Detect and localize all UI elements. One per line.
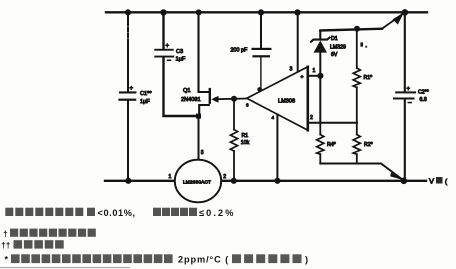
svg-text:LM2930ACT: LM2930ACT	[183, 179, 211, 184]
svg-text:1μF: 1μF	[176, 57, 186, 63]
svg-text:†: †	[3, 228, 8, 238]
svg-text:R1: R1	[242, 133, 249, 139]
wire C2 top lead	[404, 13, 406, 92]
svg-text:+: +	[301, 74, 304, 80]
note line 3: ++ 固体钽电容	[1, 240, 64, 250]
scan noise line bottom left	[0, 267, 130, 269]
wire C3 top lead	[162, 13, 164, 49]
svg-text:C1**: C1**	[140, 91, 152, 97]
arrowhead blob on diagonal	[390, 172, 402, 179]
svg-text:C3: C3	[176, 49, 183, 55]
resistor R5	[353, 42, 372, 87]
svg-text:≤0.2%: ≤0.2%	[199, 208, 235, 218]
wire Q1 gate to op-amp output	[217, 98, 247, 101]
svg-text:6V: 6V	[331, 52, 338, 58]
node junction top rail C5	[258, 9, 264, 15]
svg-text:4: 4	[272, 115, 275, 120]
node junction emitter/C3	[196, 114, 201, 119]
wire R1 top lead	[233, 99, 235, 130]
wire R5 bottom lead	[356, 87, 358, 122]
wire zener cathode to top right	[320, 29, 382, 31]
svg-text:R4*: R4*	[327, 142, 336, 148]
wire op-amp V+ lead	[297, 13, 299, 72]
capacitor C3 1uF	[154, 44, 186, 63]
node junction top rail V+ pin	[294, 9, 300, 15]
svg-text:1μF: 1μF	[140, 99, 150, 105]
node junction top rail C1	[125, 9, 131, 15]
wire zener anode down through pin1 node to R4	[319, 53, 321, 123]
svg-text:3: 3	[201, 150, 204, 156]
wire R1 bottom lead	[233, 151, 235, 180]
wire C1 top lead	[127, 13, 129, 23]
node junction comp pin on op-amp edge	[257, 87, 262, 92]
wire reference top pin	[198, 118, 200, 160]
note line 4: * 选择电阻使输出电压温度系数等于2ppm/C (按图所指出的)	[5, 254, 309, 264]
svg-text:1: 1	[169, 174, 172, 180]
node Vout label	[429, 177, 447, 186]
node junction bottom rail right	[401, 178, 408, 185]
node junction bottom rail R1	[231, 178, 237, 184]
wire R5 top lead	[356, 29, 358, 68]
svg-text:Q1: Q1	[183, 88, 190, 94]
wire bottom output rail right segment	[221, 180, 426, 182]
svg-text:(: (	[445, 180, 447, 186]
node junction top rail Q1 drain	[196, 9, 202, 15]
capacitor C1 1uF	[118, 86, 152, 105]
resistor R4	[317, 123, 336, 164]
wire top supply rail	[106, 11, 427, 13]
wire C2 bottom lead	[404, 100, 406, 181]
wire C1 bottom lead	[127, 101, 129, 180]
wire op-amp pin 1	[309, 75, 321, 77]
svg-text:+: +	[166, 44, 170, 50]
resistor R1 10k	[230, 130, 249, 151]
svg-text:6.8: 6.8	[420, 97, 427, 103]
svg-text:R2*: R2*	[364, 142, 373, 148]
svg-text:LM308: LM308	[278, 98, 295, 104]
svg-text:+: +	[130, 86, 134, 92]
svg-text:R1*: R1*	[364, 75, 373, 81]
node junction top rail C3	[160, 9, 166, 15]
wire bottom output rail left segment	[105, 180, 176, 182]
svg-text:2N4091: 2N4091	[181, 97, 201, 103]
node junction bottom rail V-	[274, 178, 280, 184]
svg-text:3: 3	[290, 67, 293, 73]
capacitor C5 200pF	[231, 48, 272, 58]
wire Q1 drain lead	[199, 13, 209, 93]
svg-text:2ppm/°C (: 2ppm/°C (	[178, 254, 229, 264]
svg-text:D1: D1	[331, 36, 338, 42]
wire C5 top lead	[260, 13, 262, 48]
svg-text:*: *	[5, 255, 9, 265]
wire C5 bottom lead to op-amp	[260, 58, 262, 89]
IC U2 LM2930ACT circle	[175, 160, 221, 203]
svg-text:2: 2	[223, 174, 226, 180]
svg-text:): )	[305, 254, 308, 264]
arrowhead on diagonal	[393, 13, 404, 25]
svg-text:V: V	[429, 177, 434, 186]
svg-text:<0.01%,: <0.01%,	[98, 208, 136, 218]
svg-text:200 pF: 200 pF	[231, 48, 248, 54]
node junction bottom rail C1	[125, 178, 131, 184]
resistor R2	[353, 123, 372, 164]
svg-text:††: ††	[1, 240, 11, 250]
node junction zener wire / R5	[354, 26, 360, 32]
svg-text:C2**: C2**	[418, 90, 429, 96]
node junction top rail right	[402, 9, 409, 16]
svg-text:6: 6	[246, 103, 249, 108]
wire op-amp pin 2 feedback	[309, 122, 357, 124]
wire divider bottom to output rail	[320, 164, 403, 181]
diode D1 LM329 zener	[311, 31, 346, 58]
wire C3 bottom lead down and elbow right	[164, 58, 199, 117]
note line 1: 负载和电源调节率 <0.01%; 温度稳定度 ≤0.2%	[5, 208, 235, 218]
node junction gate wire / R1	[231, 96, 237, 102]
note line 2: + 稳定齐纳的零调电流	[3, 228, 96, 238]
svg-text:LM329: LM329	[330, 45, 346, 51]
wire diagonal to top rail	[382, 13, 405, 29]
node junction pin1 / zener anode	[317, 73, 323, 79]
wire op-amp V- to bottom rail	[276, 115, 278, 181]
op-amp U1 LM308	[246, 67, 308, 130]
svg-text:10k: 10k	[241, 140, 250, 146]
svg-text:2: 2	[310, 115, 313, 121]
svg-text:1: 1	[313, 68, 316, 74]
capacitor C2 6.8uF	[393, 87, 429, 104]
transistor Q1 2N4091	[181, 88, 219, 116]
